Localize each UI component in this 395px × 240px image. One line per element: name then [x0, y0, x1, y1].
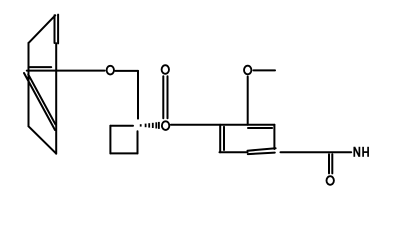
bond CH2-Cq vertical — [137, 71, 139, 119]
cyclobutane bottom edge — [110, 152, 137, 154]
hashed wedge stereo bond tick 4 — [152, 123, 154, 128]
atom label H of NH: right stem — [367, 147, 369, 157]
bond C7=C3 horizontal double bond upper line — [29, 66, 52, 68]
atom label O amide carbonyl — [327, 176, 334, 185]
hashed wedge stereo bond tick 3 — [148, 123, 150, 127]
atom label O ester carbonyl — [162, 65, 169, 74]
atom label H of NH: crossbar — [363, 151, 368, 153]
cyclobutane left edge — [109, 126, 111, 154]
cyclobutane right edge — [137, 131, 139, 153]
benzene bottom edge — [220, 151, 248, 153]
atom label N of NH: diagonal — [354, 147, 359, 157]
bond C7-C5 bottom diagonal edge of bicyclic — [29, 126, 56, 153]
atom label O methoxy — [244, 66, 251, 75]
atom label N of NH: left stem — [353, 147, 355, 157]
ester C=O double bond right line — [167, 76, 169, 118]
bond O-CH2 ether to methylene — [115, 70, 138, 72]
cyclobutane top edge — [110, 125, 133, 127]
atom label H of NH: left stem — [362, 147, 364, 157]
amide C=O double bond right line — [331, 154, 333, 173]
ester C=O double bond left line — [162, 76, 164, 118]
hashed wedge stereo bond tick 6 — [158, 122, 160, 129]
bond C1-C8 diagonal (bicyclic top) — [29, 15, 56, 43]
hashed wedge stereo bond tick 2 — [145, 124, 147, 128]
bond C2-C3 main vertical through bicyclic — [55, 43, 57, 154]
bond C7=C6 diagonal double bond line a — [24, 73, 55, 130]
bond C8-C7 left vertical edge of bicyclic — [28, 43, 30, 126]
bond C3-O ether horizontal main line — [27, 70, 105, 72]
bond C7=C6 diagonal double bond line b — [28, 74, 55, 124]
benzene left edge — [219, 125, 221, 153]
bond ester O to aryl ring — [171, 124, 275, 126]
bond C1=C2 double bond left line (bicyclic top) — [54, 15, 56, 43]
benzene left inner double bond line — [223, 127, 225, 150]
bond methoxy O down to ring — [247, 77, 249, 125]
bond ring to amide N — [281, 151, 352, 153]
benzene bottom double bond upper line — [248, 148, 276, 150]
hashed wedge stereo bond tick 5 — [155, 122, 157, 128]
benzene bottom double bond lower line — [248, 153, 275, 155]
atom label O ester — [162, 121, 169, 130]
benzene right edge — [273, 125, 275, 149]
atom label O ether — [107, 66, 114, 75]
benzene top inner double bond line — [248, 127, 272, 129]
bond C1=C2 double bond right line (bicyclic top) — [57, 15, 59, 44]
amide C=O double bond left line — [328, 154, 330, 173]
bond methoxy O-CH3 — [254, 69, 276, 71]
hashed wedge stereo bond tick 1 — [140, 124, 142, 126]
atom label N of NH: right stem — [358, 147, 360, 157]
